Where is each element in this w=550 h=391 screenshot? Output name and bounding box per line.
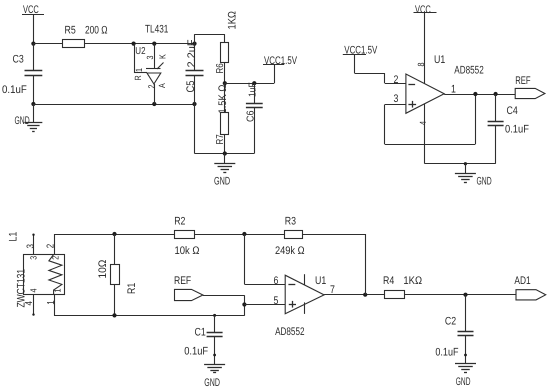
svg-text:2: 2 bbox=[46, 244, 57, 249]
svg-text:U2: U2 bbox=[135, 46, 146, 57]
svg-text:200 Ω: 200 Ω bbox=[85, 24, 108, 36]
svg-text:10Ω: 10Ω bbox=[97, 260, 109, 279]
svg-text:1: 1 bbox=[53, 288, 63, 292]
svg-text:C4: C4 bbox=[507, 105, 518, 117]
svg-text:R1: R1 bbox=[126, 283, 138, 294]
svg-text:C3: C3 bbox=[13, 54, 24, 66]
svg-text:L1: L1 bbox=[7, 232, 19, 242]
svg-text:GND: GND bbox=[204, 377, 220, 389]
svg-text:249k Ω: 249k Ω bbox=[275, 245, 305, 257]
svg-text:AD8552: AD8552 bbox=[454, 65, 483, 77]
svg-text:AD1: AD1 bbox=[514, 275, 530, 287]
svg-text:4: 4 bbox=[418, 121, 428, 125]
svg-text:0.1uF: 0.1uF bbox=[2, 84, 27, 96]
svg-text:2: 2 bbox=[50, 256, 60, 260]
svg-text:3: 3 bbox=[26, 244, 37, 249]
svg-text:5: 5 bbox=[274, 295, 279, 307]
svg-text:REF: REF bbox=[515, 75, 531, 87]
svg-text:3: 3 bbox=[394, 93, 399, 105]
svg-text:U1: U1 bbox=[434, 54, 445, 66]
svg-text:GND: GND bbox=[456, 376, 471, 388]
svg-text:1.5K Ω: 1.5K Ω bbox=[217, 85, 229, 114]
svg-text:3: 3 bbox=[145, 55, 155, 59]
svg-text:3: 3 bbox=[28, 256, 38, 260]
svg-text:1KΩ: 1KΩ bbox=[403, 275, 422, 287]
svg-text:1: 1 bbox=[451, 84, 456, 96]
svg-text:6: 6 bbox=[274, 275, 279, 287]
svg-text:K: K bbox=[157, 54, 167, 59]
svg-text:R4: R4 bbox=[383, 275, 394, 287]
svg-text:0.1uF: 0.1uF bbox=[505, 124, 529, 136]
svg-text:TL431: TL431 bbox=[145, 24, 168, 36]
svg-text:0.1uF: 0.1uF bbox=[435, 346, 458, 358]
svg-text:C1: C1 bbox=[195, 327, 206, 339]
svg-text:R2: R2 bbox=[174, 216, 185, 228]
svg-text:C6: C6 bbox=[246, 110, 257, 122]
svg-text:1: 1 bbox=[134, 68, 144, 72]
svg-text:1uF: 1uF bbox=[248, 82, 259, 97]
svg-text:0.1uF: 0.1uF bbox=[184, 346, 208, 358]
svg-text:C2: C2 bbox=[445, 315, 456, 327]
svg-text:10k Ω: 10k Ω bbox=[175, 245, 200, 257]
svg-text:1: 1 bbox=[46, 300, 57, 305]
svg-text:1KΩ: 1KΩ bbox=[227, 11, 239, 29]
svg-text:R: R bbox=[133, 75, 143, 81]
svg-text:2: 2 bbox=[146, 84, 156, 88]
svg-text:U1: U1 bbox=[315, 275, 326, 287]
svg-text:2.2uF: 2.2uF bbox=[186, 39, 198, 67]
svg-text:VCC: VCC bbox=[415, 4, 431, 16]
svg-text:GND: GND bbox=[214, 176, 230, 188]
svg-text:GND: GND bbox=[477, 176, 492, 188]
svg-text:2: 2 bbox=[394, 74, 399, 86]
svg-text:ZWCT131: ZWCT131 bbox=[16, 269, 28, 308]
svg-text:A: A bbox=[157, 83, 167, 88]
svg-text:AD8552: AD8552 bbox=[275, 326, 304, 338]
svg-text:GND: GND bbox=[15, 115, 30, 127]
svg-text:REF: REF bbox=[174, 275, 191, 287]
svg-text:8: 8 bbox=[416, 62, 426, 66]
svg-text:VCC1.5V: VCC1.5V bbox=[264, 55, 297, 67]
svg-text:R3: R3 bbox=[285, 216, 296, 228]
svg-text:4: 4 bbox=[28, 288, 38, 292]
svg-text:C5: C5 bbox=[185, 81, 197, 93]
svg-text:R5: R5 bbox=[65, 24, 76, 36]
